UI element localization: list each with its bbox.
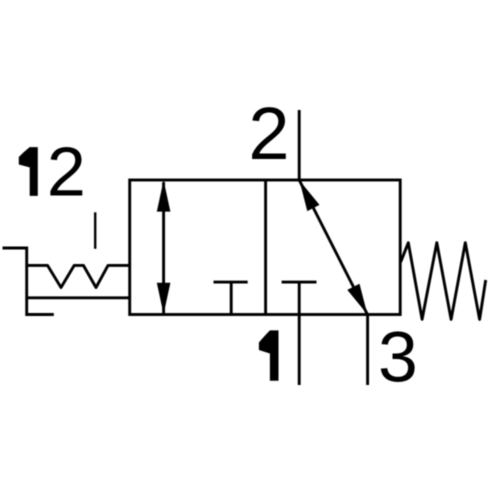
pilot actuator bottom rail — [27, 296, 130, 299]
port 3 pipe — [366, 314, 369, 385]
position divider line — [264, 180, 267, 315]
valve body box — [130, 180, 401, 315]
return spring right — [401, 243, 486, 320]
label 12 leader tick — [94, 212, 96, 249]
right position arrowhead down toward port 3 — [347, 284, 367, 315]
port 1 pipe with T stem — [298, 282, 301, 385]
port label 1 — [259, 330, 279, 380]
port 2 pipe — [298, 110, 301, 180]
svg-text:2: 2 — [248, 92, 289, 175]
svg-text:3: 3 — [378, 318, 418, 398]
left position flow arrow shaft (1-2 passage) — [162, 182, 165, 313]
svg-text:2: 2 — [47, 133, 86, 211]
left position arrowhead down — [157, 283, 171, 314]
right position flow path 2-3 shaft — [299, 180, 367, 314]
pilot port 12 wire — [3, 248, 54, 315]
right position arrowhead up toward port 2 — [299, 180, 319, 211]
pilot actuator top rail with zigzag — [27, 265, 130, 287]
label 12 digit 1 — [19, 147, 38, 196]
left position blocked port T — [214, 282, 248, 314]
right position blocked port 1 T — [282, 281, 317, 284]
left position arrowhead up — [157, 180, 171, 211]
